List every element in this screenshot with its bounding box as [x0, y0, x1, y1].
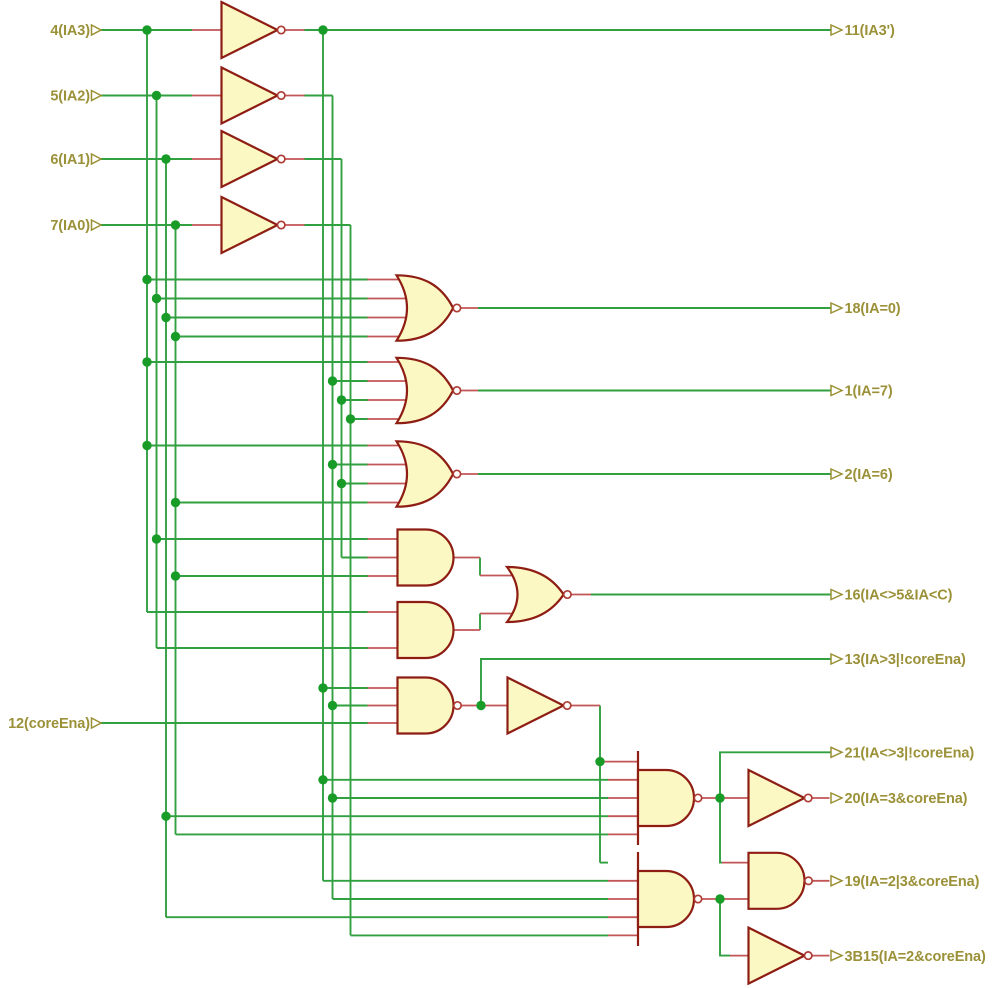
junction in2 IA2' U6 (NOR4 IA=7) — [328, 376, 337, 385]
wire IA0' column — [350, 225, 352, 935]
pin in2 IA2' U7 (NOR4 IA=6) — [368, 464, 408, 466]
output port 18(IA=0) — [831, 303, 842, 313]
junction IA2 at input row — [152, 91, 161, 100]
wire in1 IA3 to U5 (NOR4 IA=0) — [147, 279, 368, 281]
nand-gate U16 (19 output) — [749, 853, 813, 909]
junction in3 IA1' U6 (NOR4 IA=7) — [337, 395, 346, 404]
wire in1 IA3 to U6 (NOR4 IA=7) — [147, 361, 368, 363]
pin input inverter U3 — [192, 158, 222, 160]
pin IA0 U13 — [608, 833, 638, 835]
junction node19 — [715, 894, 724, 903]
pin in4 IA0' U6 (NOR4 IA=7) — [368, 418, 408, 420]
output port 16(IA<>5&IA<C) — [831, 590, 842, 600]
nand-gate U11 (IA>3|!coreEna) — [398, 678, 462, 734]
pin IA1 U13 — [608, 815, 638, 817]
pin in1 IA3 U5 (NOR4 IA=0) — [368, 279, 408, 281]
wire IA1' bend — [305, 158, 342, 160]
wire in3 IA1 to U5 (NOR4 IA=0) — [166, 317, 368, 319]
junction IA0 U8 — [171, 571, 180, 580]
inverter U4 (IA0 inverter) — [222, 197, 285, 253]
wire IA0 from port — [101, 224, 192, 226]
output port 1(IA=7) — [831, 386, 842, 396]
svg-text:16(IA<>5&IA<C): 16(IA<>5&IA<C) — [845, 588, 953, 604]
nor-gate U10 (16 output) — [507, 567, 571, 622]
svg-text:18(IA=0): 18(IA=0) — [845, 301, 901, 317]
pin in2 IA2 U5 (NOR4 IA=0) — [368, 298, 408, 300]
pin output U5 (NOR4 IA=0) — [461, 307, 479, 309]
and-gate U9 (IA3&IA2) — [398, 602, 454, 658]
wire n12 column — [599, 706, 601, 863]
wire IA1 from port — [101, 158, 192, 160]
junction in1 IA3 U7 (NOR4 IA=6) — [142, 441, 151, 450]
wire in4 IA0 to U7 (NOR4 IA=6) — [176, 502, 368, 504]
pin in1 U11 — [368, 687, 398, 689]
pin in3 U11 coreEna — [368, 722, 398, 724]
pin output inverter U3 — [285, 158, 305, 160]
svg-text:13(IA>3|!coreEna): 13(IA>3|!coreEna) — [845, 652, 966, 668]
pin in2 IA2' U6 (NOR4 IA=7) — [368, 380, 408, 382]
pin output U12 — [571, 705, 600, 707]
pin U9 to U10 — [480, 613, 516, 615]
output port 13(IA>3|!coreEna) — [831, 654, 842, 664]
wire IA1 column — [165, 159, 167, 917]
wire IA2' column — [332, 96, 334, 900]
output port 3B15(IA=2&coreEna) — [831, 951, 842, 961]
output port 11(IA3') — [831, 25, 842, 35]
junction IA1 U13 — [161, 812, 170, 821]
wire IA3 column — [146, 30, 148, 612]
pin in4 IA0 U7 (NOR4 IA=6) — [368, 502, 408, 504]
or-gate U5 (NOR4 IA=0) — [397, 275, 461, 340]
wire IA2 column — [156, 96, 158, 649]
input port 6(IA1) — [92, 154, 102, 164]
or-gate U7 (NOR4 IA=6) — [397, 441, 461, 506]
pin in2 U9 — [368, 647, 398, 649]
wire IA2' to U14 — [333, 898, 609, 900]
junction IA1 at input row — [161, 154, 170, 163]
inverter U12 — [508, 678, 571, 734]
wire IA0 to U13 — [176, 833, 609, 835]
wire IA1' to U8 — [342, 557, 368, 559]
input port 4(IA3) — [92, 25, 102, 35]
pin IA2' U13 — [608, 797, 638, 799]
pin in2 U8 — [368, 557, 398, 559]
svg-text:1(IA=7): 1(IA=7) — [845, 384, 893, 400]
junction in4 IA0 U7 (NOR4 IA=6) — [171, 498, 180, 507]
inverter U17 (3B15 output) — [749, 928, 812, 984]
wire in1 IA3 to U7 (NOR4 IA=6) — [147, 445, 368, 447]
pin in1 U9 — [368, 611, 398, 613]
junction IA3' U13 — [318, 775, 327, 784]
wire in2 IA2' to U7 (NOR4 IA=6) — [333, 464, 368, 466]
pin in3 IA1' U7 (NOR4 IA=6) — [368, 483, 408, 485]
wire in2 IA2' to U6 (NOR4 IA=7) — [333, 380, 368, 382]
pin output U15 — [812, 797, 830, 799]
junction node13 — [476, 701, 485, 710]
wire IA3' to U14 — [323, 880, 608, 882]
wire IA0 to U8 — [176, 575, 368, 577]
wire in3 IA1' to U6 (NOR4 IA=7) — [342, 399, 368, 401]
pin IA3' U13 — [608, 779, 638, 781]
pin IA2' U14 — [608, 898, 638, 900]
junction IA3' U11 — [318, 683, 327, 692]
and-gate U8 (IA2&IA1'&IA0) — [398, 530, 454, 586]
wire in4 IA0 to U5 (NOR4 IA=0) — [176, 336, 368, 338]
wire in3 IA1' to U7 (NOR4 IA=6) — [342, 483, 368, 485]
junction IA2' U13 — [328, 793, 337, 802]
wire output 2(IA=6) — [478, 473, 831, 475]
wire IA3 to U9 — [147, 611, 368, 613]
junction in1 IA3 U5 (NOR4 IA=0) — [142, 275, 151, 284]
wire output 16 — [591, 594, 831, 596]
wire IA0 column — [175, 225, 177, 834]
svg-text:20(IA=3&coreEna): 20(IA=3&coreEna) — [845, 791, 968, 807]
svg-text:21(IA<>3|!coreEna): 21(IA<>3|!coreEna) — [845, 746, 975, 762]
pin in1 U8 — [368, 538, 398, 540]
pin in4 IA0 U5 (NOR4 IA=0) — [368, 336, 408, 338]
pin input inverter U1 — [192, 29, 222, 31]
junction IA2 U8 — [152, 534, 161, 543]
junction node21 — [715, 793, 724, 802]
svg-text:11(IA3'): 11(IA3') — [845, 23, 895, 39]
wire U9 out bend — [479, 614, 481, 631]
wire node21 to U16 — [720, 798, 722, 863]
wire IA3' to U13 — [323, 779, 608, 781]
pin output U14 — [702, 898, 749, 900]
pin output inverter U1 — [285, 29, 305, 31]
junction IA2' U11 — [328, 701, 337, 710]
wire IA2' to U11 — [333, 705, 368, 707]
wire IA1 to U13 — [166, 815, 608, 817]
wire n12 to U14 — [600, 862, 608, 864]
junction IA0 at input row — [171, 220, 180, 229]
inverter U2 (IA2 inverter) — [222, 68, 285, 124]
wire node19 to U17 — [720, 899, 730, 956]
pin IA0' U14 — [608, 934, 638, 936]
wire output 21 — [720, 752, 831, 798]
wire IA0' to U14 — [351, 934, 609, 936]
pin in1 U16 — [722, 862, 749, 864]
junction in3 IA1' U7 (NOR4 IA=6) — [337, 479, 346, 488]
junction IA3 at input row — [142, 25, 151, 34]
wire in4 IA0' to U6 (NOR4 IA=7) — [351, 418, 368, 420]
svg-text:5(IA2): 5(IA2) — [50, 89, 90, 105]
pin output U13 — [702, 797, 749, 799]
svg-text:12(coreEna): 12(coreEna) — [8, 716, 90, 732]
junction in2 IA2' U7 (NOR4 IA=6) — [328, 460, 337, 469]
output port 19(IA=2|3&coreEna) — [831, 876, 842, 886]
wire IA3' column — [322, 30, 324, 881]
pin output U9 — [454, 629, 480, 631]
wire output 1(IA=7) — [478, 390, 831, 392]
pin U8 to U10 — [480, 575, 516, 577]
junction in4 IA0' U6 (NOR4 IA=7) — [346, 414, 355, 423]
output port 20(IA=3&coreEna) — [831, 793, 842, 803]
pin output U6 (NOR4 IA=7) — [461, 390, 479, 392]
pin output U8 — [454, 557, 480, 559]
wire IA0' bend — [305, 224, 351, 226]
junction IA3' at output row — [318, 25, 327, 34]
junction in4 IA0 U5 (NOR4 IA=0) — [171, 332, 180, 341]
output port 2(IA=6) — [831, 469, 842, 479]
pin input inverter U2 — [192, 95, 222, 97]
svg-text:19(IA=2|3&coreEna): 19(IA=2|3&coreEna) — [845, 874, 980, 890]
svg-text:7(IA0): 7(IA0) — [50, 218, 90, 234]
nand-gate U13 (IA=3&coreEna) — [638, 751, 702, 845]
wire IA2 to U8 — [157, 538, 368, 540]
inverter U1 (IA3 inverter) — [222, 2, 285, 58]
pin in U17 — [730, 955, 749, 957]
wire IA3 from port — [101, 29, 192, 31]
wire IA2' bend — [305, 95, 333, 97]
pin input inverter U4 — [192, 224, 222, 226]
nand-gate U14 (IA=2-ish) — [638, 852, 702, 946]
or-gate U6 (NOR4 IA=7) — [397, 358, 461, 423]
input port 12(coreEna) — [92, 718, 102, 728]
input port 7(IA0) — [92, 220, 102, 230]
pin IA3' U14 — [608, 880, 638, 882]
wire coreEna from port — [101, 722, 368, 724]
pin IA1 U14 — [608, 916, 638, 918]
wire IA3' to output 11 — [305, 29, 832, 31]
wire U8 out bend — [479, 558, 481, 576]
wire output 13 — [481, 659, 831, 706]
svg-text:2(IA=6): 2(IA=6) — [845, 467, 893, 483]
wire IA2 from port — [101, 95, 192, 97]
junction in2 IA2 U5 (NOR4 IA=0) — [152, 294, 161, 303]
input port 5(IA2) — [92, 91, 102, 101]
inverter U15 (20 output) — [749, 770, 812, 826]
svg-text:6(IA1): 6(IA1) — [50, 152, 90, 168]
pin in1 IA3 U7 (NOR4 IA=6) — [368, 445, 408, 447]
wire output 18(IA=0) — [478, 307, 831, 309]
pin in3 U8 — [368, 575, 398, 577]
pin in2 U11 — [368, 705, 398, 707]
output port 21(IA<>3|!coreEna) — [831, 747, 842, 757]
pin output inverter U2 — [285, 95, 305, 97]
wire IA1' column — [341, 159, 343, 558]
pin in3 IA1' U6 (NOR4 IA=7) — [368, 399, 408, 401]
pin output U17 — [812, 955, 830, 957]
pin in3 IA1 U5 (NOR4 IA=0) — [368, 317, 408, 319]
wire IA2 to U9 — [157, 647, 368, 649]
junction n12 to U13 — [595, 757, 604, 766]
pin output U11 — [462, 705, 508, 707]
junction in1 IA3 U6 (NOR4 IA=7) — [142, 357, 151, 366]
pin output U10 — [571, 594, 591, 596]
junction in3 IA1 U5 (NOR4 IA=0) — [161, 313, 170, 322]
inverter U3 (IA1 inverter) — [222, 131, 285, 187]
wire in2 IA2 to U5 (NOR4 IA=0) — [157, 298, 368, 300]
svg-text:4(IA3): 4(IA3) — [50, 23, 90, 39]
pin output U16 — [813, 880, 830, 882]
wire IA1 to U14 — [166, 916, 608, 918]
pin output inverter U4 — [285, 224, 305, 226]
wire IA2' to U13 — [333, 797, 609, 799]
pin in1 IA3 U6 (NOR4 IA=7) — [368, 361, 408, 363]
pin in1 U13 — [600, 761, 638, 763]
pin output U7 (NOR4 IA=6) — [461, 473, 479, 475]
wire IA3' to U11 — [323, 687, 368, 689]
svg-text:3B15(IA=2&coreEna): 3B15(IA=2&coreEna) — [845, 949, 987, 965]
